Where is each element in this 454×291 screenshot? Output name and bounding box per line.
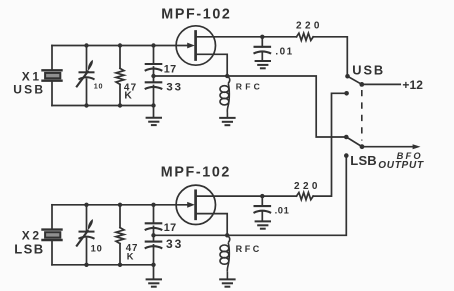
- svg-text:33: 33: [166, 237, 183, 251]
- node: rail junctions (USB osc): [84, 43, 88, 47]
- node: drain junction (USB osc): [260, 35, 264, 39]
- transistor MPF-102 (USB osc) JFET: [176, 26, 215, 65]
- resistor 47K (USB osc): [116, 68, 124, 84]
- wire: LSB supply feed from S1a to lower 220: [313, 93, 344, 196]
- node: RFC junction (USB osc): [225, 74, 229, 78]
- wire: source lead (USB osc): [196, 54, 227, 76]
- svg-text:10: 10: [94, 82, 103, 91]
- wire: +12 feed: [362, 83, 400, 85]
- wire: gate rail (USB osc): [52, 45, 188, 47]
- capacitor 33pF (USB osc): [145, 82, 163, 89]
- crystal X2: [41, 230, 62, 240]
- wire: crystal top lead (LSB osc): [51, 205, 53, 230]
- svg-text:10: 10: [91, 243, 103, 253]
- switch S1a arm (set to USB): [348, 76, 362, 84]
- capacitor 33pF (LSB osc): [145, 242, 163, 249]
- inductor RFC (LSB osc): [220, 235, 230, 278]
- svg-text:USB: USB: [13, 83, 45, 97]
- wire: varcap leads (USB osc): [86, 46, 88, 106]
- ground (RFC USB osc): [219, 118, 235, 125]
- svg-text:17: 17: [164, 222, 177, 234]
- wire: 47K leads (LSB osc): [119, 205, 121, 265]
- svg-text:K: K: [127, 252, 134, 262]
- capacitor .01 (LSB osc): [254, 206, 272, 213]
- variable capacitor C-tune LSB osc: [76, 230, 94, 247]
- resistor 220 (USB osc): [297, 33, 314, 40]
- resistor 47K (LSB osc): [116, 228, 124, 244]
- ground (divider LSB osc): [146, 279, 162, 286]
- switch S1b pivot: [360, 144, 365, 149]
- svg-text:MPF-102: MPF-102: [161, 164, 231, 180]
- switch S1b USB throw contact: [344, 135, 349, 140]
- wire: upper drain to USB supply contact: [313, 37, 347, 74]
- svg-text:220: 220: [296, 21, 323, 32]
- wire: bypass cap lead (USB osc): [261, 37, 263, 60]
- wire: bypass cap lead (LSB osc): [261, 196, 263, 220]
- svg-text:220: 220: [294, 181, 321, 192]
- node: RFC junction (LSB osc): [225, 233, 229, 237]
- wire: crystal bottom lead (USB osc): [51, 81, 53, 106]
- svg-text:+12: +12: [402, 78, 423, 92]
- node: rail junctions (LSB osc): [84, 203, 88, 207]
- ground (bypass LSB osc): [255, 221, 271, 228]
- wire: bottom rail (USB osc): [52, 105, 154, 107]
- node: cap divider tap (USB osc): [151, 74, 155, 78]
- svg-text:X2: X2: [22, 228, 42, 242]
- svg-text:33: 33: [166, 81, 182, 93]
- wire: S1b LSB contact down to lower source line: [227, 158, 346, 236]
- wire: upper source output to switch S1b USB contact: [227, 76, 344, 137]
- inductor RFC (USB osc): [220, 76, 230, 117]
- wire: gate rail (LSB osc): [52, 204, 188, 206]
- switch S1b LSB throw contact: [344, 153, 349, 158]
- wire: crystal bottom lead (LSB osc): [51, 240, 53, 265]
- wire: source line (LSB osc): [154, 234, 228, 236]
- ground (RFC LSB osc): [219, 279, 235, 286]
- capacitor .01 (USB osc): [254, 47, 272, 54]
- capacitor 17pF (LSB osc): [145, 223, 163, 230]
- resistor 220 (LSB osc): [297, 193, 314, 200]
- svg-text:LSB: LSB: [14, 242, 44, 257]
- svg-text:.01: .01: [275, 204, 290, 215]
- svg-text:LSB: LSB: [350, 153, 377, 168]
- svg-text:RFC: RFC: [236, 81, 263, 91]
- svg-text:.01: .01: [275, 47, 293, 58]
- svg-text:X1: X1: [22, 69, 42, 83]
- svg-text:MPF-102: MPF-102: [161, 6, 231, 22]
- wire: source lead (LSB osc): [196, 214, 227, 236]
- svg-text:OUTPUT: OUTPUT: [378, 160, 424, 171]
- switch S1a pivot: [359, 82, 364, 87]
- transistor MPF-102 (LSB osc) JFET: [176, 185, 215, 224]
- switch S1a LSB throw contact: [344, 91, 349, 96]
- ground (divider USB osc): [146, 118, 162, 125]
- svg-text:USB: USB: [352, 63, 385, 78]
- wire: BFO output line: [362, 146, 414, 148]
- wire: divider cap leads (USB osc): [153, 46, 155, 117]
- node: cap divider tap (LSB osc): [151, 233, 155, 237]
- arrow: BFO output: [413, 144, 421, 149]
- capacitor 17pF (USB osc): [145, 64, 163, 71]
- wire: bottom rail (LSB osc): [52, 264, 154, 266]
- svg-text:17: 17: [164, 63, 177, 75]
- wire: varcap leads (LSB osc): [86, 205, 88, 265]
- wire: 47K leads (USB osc): [119, 46, 121, 106]
- wire: divider cap leads (LSB osc): [153, 205, 155, 279]
- switch S1a USB throw contact: [345, 74, 350, 79]
- crystal X1: [41, 70, 62, 80]
- svg-text:K: K: [124, 91, 132, 102]
- ground (bypass USB osc): [255, 61, 271, 68]
- wire: source line (USB osc): [154, 75, 228, 77]
- svg-text:RFC: RFC: [236, 244, 262, 254]
- wire: crystal top lead (USB osc): [51, 46, 53, 71]
- wire: drain line (LSB osc): [196, 195, 297, 197]
- variable capacitor C-tune USB osc: [76, 71, 94, 88]
- switch S1b arm (set to USB): [346, 137, 362, 147]
- gate arrow (LSB osc): [187, 202, 195, 208]
- gate arrow (USB osc): [187, 43, 195, 49]
- wire: drain line (USB osc): [196, 36, 297, 38]
- node: drain junction (LSB osc): [260, 194, 264, 198]
- mechanical link (dashed): [361, 90, 363, 141]
